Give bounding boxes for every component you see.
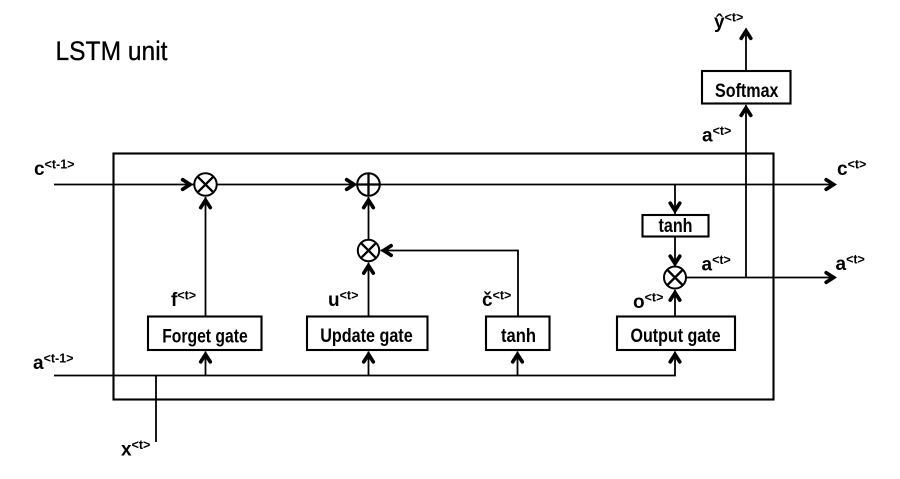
wire c-line tap down to upper tanh box	[674, 185, 676, 215]
multiply node 1 circle-X	[194, 173, 216, 195]
svg-text:č<t>: č<t>	[482, 289, 511, 312]
arrowhead up into forget gate	[201, 354, 211, 362]
arrowhead into multiply node 1	[183, 180, 191, 190]
arrowhead up into output gate	[670, 354, 680, 362]
arrowhead left into multiply node 2	[384, 246, 392, 256]
svg-text:ŷ<t>: ŷ<t>	[714, 11, 743, 34]
arrowhead up into multiply node 3	[670, 293, 680, 301]
svg-text:tanh: tanh	[501, 326, 536, 347]
svg-text:Softmax: Softmax	[715, 81, 779, 102]
wire update gate up to multiply node 2	[368, 263, 370, 317]
svg-text:Forget gate: Forget gate	[162, 327, 248, 348]
svg-text:LSTM unit: LSTM unit	[56, 36, 168, 66]
wire from tanh column left into multiply node 2	[381, 251, 519, 317]
arrowhead up into update gate	[364, 354, 374, 362]
forget gate box	[148, 317, 262, 351]
multiply node 2 circle-X	[358, 240, 379, 261]
svg-text:c<t>: c<t>	[837, 158, 866, 181]
arrowhead up into softmax	[741, 108, 751, 116]
add node circle-plus	[357, 173, 380, 196]
wire a-out horizontal from multiply node 3	[686, 277, 835, 279]
svg-text:u<t>: u<t>	[328, 289, 358, 312]
arrowhead a-out right	[826, 273, 834, 283]
wire upper tanh down to multiply node 3	[674, 237, 676, 266]
tanh box upper	[643, 215, 709, 237]
wire forget gate up to multiply node 1	[205, 197, 207, 317]
svg-text:a<t>: a<t>	[836, 253, 865, 276]
svg-text:tanh: tanh	[659, 216, 693, 237]
arrowhead down into upper tanh box	[670, 203, 680, 211]
arrowhead c-out right	[826, 180, 834, 190]
arrowhead up into multiply node 2	[364, 266, 374, 274]
wire a-line horizontal with turn up into output gate	[54, 352, 675, 376]
svg-text:Update gate: Update gate	[320, 326, 413, 347]
svg-text:a<t>: a<t>	[702, 253, 731, 276]
svg-text:a<t-1>: a<t-1>	[33, 352, 73, 375]
arrowhead y-hat output up	[741, 31, 751, 38]
arrowhead up into lower tanh	[513, 354, 523, 362]
wire up into update gate	[368, 352, 370, 376]
LSTM cell boundary rectangle	[114, 154, 774, 400]
arrowhead into add node from left	[347, 180, 355, 190]
softmax box	[702, 71, 791, 104]
svg-text:f<t>: f<t>	[171, 289, 196, 312]
tanh box lower	[486, 317, 550, 351]
wire x input vertical	[155, 376, 157, 443]
wire up into lower tanh	[517, 352, 519, 376]
svg-text:a<t>: a<t>	[702, 124, 731, 147]
wire softmax up to y-hat output	[745, 29, 747, 72]
wire up into forget gate	[205, 352, 207, 376]
multiply node 3 circle-X	[664, 267, 686, 289]
wire multiply node 2 up to add node	[368, 197, 370, 240]
svg-text:c<t-1>: c<t-1>	[34, 158, 74, 181]
svg-text:o<t>: o<t>	[633, 291, 663, 314]
svg-text:Output gate: Output gate	[631, 326, 721, 347]
arrowhead up into add node	[364, 200, 374, 208]
output gate box	[617, 317, 735, 351]
arrowhead up into multiply node 1	[201, 200, 211, 208]
arrowhead down into multiply node 3	[670, 256, 680, 264]
svg-text:x<t>: x<t>	[121, 438, 150, 461]
wire vertical from a-out junction up to softmax	[745, 105, 747, 278]
update gate box	[307, 317, 428, 351]
wire output gate up to multiply node 3	[674, 290, 676, 317]
wire c-line horizontal	[54, 184, 835, 186]
